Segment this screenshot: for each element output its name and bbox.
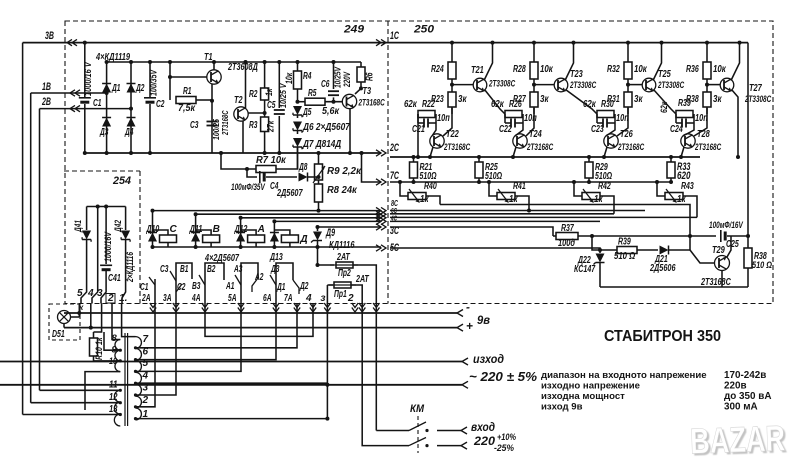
diode Д10 [148, 233, 157, 242]
label D13 [269, 252, 283, 263]
connector arrow down [173, 303, 179, 312]
label R23 value [458, 94, 467, 105]
label R32 [607, 64, 620, 75]
junction [477, 180, 481, 184]
junction [194, 212, 198, 216]
diode D2 [127, 84, 136, 93]
label R28 [513, 64, 526, 75]
label C2 value 100/35V [149, 69, 159, 96]
svg-text:62к: 62к [583, 99, 597, 110]
wire tap1 [136, 418, 328, 420]
wire T29 base [690, 250, 714, 263]
svg-text:10к: 10к [540, 64, 554, 75]
label 2B [41, 96, 51, 108]
junction [655, 180, 659, 184]
label C1 value 1000/16V [83, 61, 93, 96]
label C2 [156, 99, 165, 110]
wire bottom rail right [600, 286, 748, 288]
svg-text:+: + [466, 319, 473, 333]
connector arrow down [310, 303, 316, 312]
label Д12 [234, 224, 248, 235]
label С21 [412, 124, 425, 135]
svg-text:R10 1к: R10 1к [94, 337, 104, 360]
svg-text:62к: 62к [491, 99, 505, 110]
label R38 [754, 251, 767, 262]
svg-text:100мФ/35V: 100мФ/35V [231, 182, 266, 192]
svg-text:СТАБИТРОН 350: СТАБИТРОН 350 [604, 328, 721, 345]
label Т21 [471, 65, 484, 76]
wire R7 left leg [221, 153, 256, 169]
resistor R10 [90, 332, 98, 361]
label С22 [499, 124, 512, 135]
wire 2B [40, 108, 132, 110]
wire Т25 base [628, 84, 642, 86]
table row [541, 391, 771, 402]
wire terminal4 drop [90, 304, 92, 328]
wire R10 to tap10 [94, 360, 121, 362]
wire relay coil bottom [289, 243, 291, 248]
label terminal 7А [284, 293, 293, 304]
junction [412, 180, 416, 184]
connector 2C chevrons [376, 150, 386, 156]
label 1C [390, 30, 399, 42]
wire Т23 collector [565, 43, 574, 81]
svg-text:Д2: Д2 [135, 83, 144, 94]
junction [83, 41, 87, 45]
svg-text:А: А [257, 224, 265, 235]
label Д11 [189, 224, 203, 235]
resistor R39 [600, 247, 658, 254]
resistor R4 [294, 62, 302, 102]
junction [572, 180, 576, 184]
wire Т25 collector [653, 43, 662, 81]
svg-text:А1: А1 [225, 281, 234, 292]
label С22 value 10n [524, 113, 537, 124]
label terminal 3А [163, 293, 172, 304]
capacitor С21 [418, 114, 436, 128]
connector izhod 2 [462, 381, 468, 388]
svg-text:R8 24к: R8 24к [327, 185, 358, 196]
connector 9v minus [457, 300, 470, 317]
connector 9С chevrons [376, 218, 386, 224]
wire 9v line plus [64, 327, 457, 329]
label D9 [325, 227, 335, 239]
connector arrow down [373, 303, 379, 312]
svg-text:изходно напрежение: изходно напрежение [541, 381, 640, 392]
diode D1 [102, 84, 111, 93]
wire Т28 base [683, 123, 694, 136]
wire 254 mid column [92, 207, 98, 304]
label R41 value 1k [509, 194, 518, 205]
svg-text:R22: R22 [422, 99, 435, 110]
connector chevrons 3B [67, 39, 77, 45]
label R6 rotated [365, 72, 376, 81]
svg-text:220: 220 [473, 434, 496, 448]
label tap 13 [109, 404, 118, 415]
label Т27 name right [744, 83, 771, 104]
svg-text:2Т3168С: 2Т3168С [617, 142, 644, 152]
label R40 [424, 181, 437, 192]
svg-text:1000/16 V: 1000/16 V [83, 61, 93, 96]
capacitor С24 [676, 114, 694, 128]
junction [425, 444, 428, 447]
svg-text:4С: 4С [390, 215, 397, 223]
svg-text:R39: R39 [618, 237, 631, 248]
label C1 contact [140, 282, 149, 293]
connector chevrons 2B [70, 105, 80, 111]
resistor R33 [667, 157, 675, 182]
svg-text:3к: 3к [458, 94, 467, 105]
svg-text:5,6к: 5,6к [322, 106, 340, 117]
label T3 type [358, 98, 385, 108]
wire terminal1 drop [122, 304, 136, 337]
label R1 value [178, 103, 196, 114]
label Т26 [620, 129, 633, 140]
relay coil Д [281, 235, 298, 243]
wire Т24 collector [526, 108, 534, 136]
label Т24 [529, 129, 542, 140]
wire 2B left drop [39, 109, 41, 391]
wire tap11 [40, 389, 121, 391]
svg-text:R41: R41 [513, 181, 526, 192]
junction [105, 151, 109, 155]
label relay С [170, 224, 178, 235]
svg-text:Д41: Д41 [72, 220, 83, 233]
resistor R6 [355, 62, 365, 94]
junction [332, 60, 336, 64]
junction [119, 401, 122, 404]
contact D2 blade [293, 280, 299, 294]
junction [129, 107, 133, 111]
label 220 5pct [469, 369, 537, 384]
label T2 [234, 95, 243, 106]
label R28 value [540, 64, 554, 75]
svg-text:100/25: 100/25 [212, 119, 221, 140]
label tap 3 [143, 383, 149, 394]
label R29 [595, 162, 612, 182]
connector 6С chevrons [376, 211, 386, 217]
transistor Т26 [604, 134, 618, 148]
capacitor C4 [260, 171, 297, 183]
relay coil С [160, 235, 177, 243]
junction [626, 41, 630, 45]
label izhod [473, 352, 504, 366]
svg-text:2Т3608Д: 2Т3608Д [227, 62, 258, 73]
junction [134, 358, 137, 361]
wire relay coil bottom [167, 243, 169, 248]
svg-text:R24: R24 [431, 64, 444, 75]
junction [277, 151, 281, 155]
junction [104, 205, 108, 209]
potentiometer R40 [408, 189, 426, 203]
label tap 11 [109, 380, 118, 391]
wire relay branch С [152, 211, 154, 247]
capacitor C1 [79, 43, 91, 153]
svg-text:1.: 1. [119, 293, 128, 304]
label С23 [591, 124, 604, 135]
svg-text:диапазон на входното напрежени: диапазон на входното напрежение [541, 370, 707, 381]
label R40 value 1k [420, 194, 429, 205]
label 3B [45, 30, 54, 42]
wire pot left to rail [400, 182, 408, 196]
wire pot left to rail [657, 182, 665, 196]
title STABITRON 350 [604, 328, 721, 345]
junction [219, 151, 223, 155]
wire tap13 [23, 414, 121, 416]
label Т26 type [617, 142, 644, 152]
wire T2 collector [245, 62, 247, 108]
svg-text:R26: R26 [509, 99, 522, 110]
wire KM feed 2 [362, 304, 409, 446]
table row [541, 402, 758, 413]
transistor Т25 [642, 78, 656, 92]
resistor R21 [410, 157, 418, 182]
connector 7C chevrons [376, 179, 386, 185]
connector 4С chevrons [376, 215, 386, 221]
label R43 [681, 181, 694, 192]
resistor R26 [505, 111, 522, 118]
svg-text:С24: С24 [670, 124, 683, 135]
label D5 [302, 107, 311, 118]
label С21 value 10n [437, 113, 450, 124]
junction [626, 83, 630, 87]
label terminal 2А [141, 293, 150, 304]
wire bottom rail 249 [85, 152, 381, 154]
wire bus 6С section 249 [196, 213, 381, 215]
wire 3B left drop [22, 43, 24, 415]
label 9v [477, 313, 490, 327]
label R37 value [558, 238, 575, 249]
wire supply rail y62 [107, 61, 361, 63]
wire T2 emitter [242, 121, 244, 153]
svg-text:3к: 3к [540, 94, 549, 105]
wire bus line4 250 [390, 216, 697, 218]
label Pr2 rating 2AT [336, 252, 350, 263]
label C3 [160, 264, 169, 275]
junction [105, 91, 109, 95]
switch KM contact 1 [376, 422, 461, 431]
contact C2 blade [176, 284, 182, 292]
transistor Т24 [513, 134, 527, 148]
wire T29 collector [727, 236, 731, 257]
wire 7C rail 250 [390, 181, 671, 183]
svg-text:Д3: Д3 [270, 264, 279, 275]
label Т25 [658, 69, 671, 80]
dashed enclosure section 254 [64, 171, 140, 304]
transistor Т27 [720, 78, 734, 92]
wire relay coil bottom [210, 243, 212, 248]
svg-text:510 Ω: 510 Ω [614, 251, 635, 262]
svg-text:R30: R30 [601, 99, 614, 110]
resistor R23 [448, 92, 456, 114]
label D3 contact [270, 264, 279, 275]
svg-text:4А: 4А [191, 293, 200, 304]
svg-text:1С: 1С [390, 30, 399, 42]
svg-text:С3: С3 [190, 120, 199, 131]
junction [317, 209, 321, 213]
junction [244, 60, 248, 64]
wire terminal 3 long drop [326, 304, 328, 419]
junction [360, 151, 364, 155]
svg-text:2А: 2А [141, 293, 150, 304]
connector 1C chevrons [376, 39, 386, 45]
label R10 1k [94, 337, 104, 360]
svg-text:-25%: -25% [494, 442, 515, 453]
svg-text:Д1: Д1 [111, 83, 120, 94]
wire Т21 collector [484, 43, 493, 81]
label D42 [112, 219, 123, 232]
wire Т23 emitter coupling [566, 90, 598, 115]
svg-text:10к: 10к [284, 72, 294, 84]
wire bridge left column [106, 62, 108, 153]
junction [77, 311, 81, 315]
diode D41 [81, 207, 91, 304]
wire right rail [747, 43, 749, 236]
zener D22 [594, 250, 605, 287]
transformer winding right [136, 337, 142, 420]
wire pot right to bus [426, 196, 440, 205]
wire Т28 collector [694, 108, 707, 136]
diode D21 [660, 236, 691, 255]
svg-text:R2: R2 [249, 89, 258, 100]
junction [746, 234, 750, 238]
svg-text:Д2: Д2 [299, 281, 308, 292]
wire tap7 to 7A [136, 304, 298, 348]
label R27 [513, 94, 526, 105]
label 2xKD1116 [125, 252, 135, 283]
label R3 [249, 120, 258, 131]
junction [89, 326, 93, 330]
label R1 [183, 86, 192, 97]
svg-text:R42: R42 [598, 181, 611, 192]
label terminal 3 [97, 288, 103, 299]
connector 3C chevrons [376, 224, 386, 230]
svg-text:62к: 62к [659, 101, 669, 113]
junction [317, 175, 321, 179]
wire tap9 stub [104, 332, 120, 350]
label R5 [308, 88, 317, 99]
junction [425, 429, 428, 432]
wire relay coil top [274, 230, 290, 235]
label Т28 [697, 129, 710, 140]
svg-text:1В: 1В [42, 81, 51, 93]
label D22 [577, 255, 591, 266]
wire bus 9С section 249 [274, 220, 381, 222]
wire C4 branch [247, 169, 257, 177]
section label 250 [413, 24, 435, 36]
zener D6 [293, 122, 302, 135]
svg-text:BAZAR: BAZAR [689, 417, 785, 461]
junction [590, 234, 594, 238]
label R38 value [713, 94, 722, 105]
resistor R1 [176, 97, 212, 104]
svg-text:2: 2 [347, 293, 354, 304]
label R33 [677, 161, 691, 182]
resistor R29 [585, 157, 593, 182]
wire relay branch В [195, 214, 197, 247]
junction [487, 180, 491, 184]
label D2 [135, 83, 144, 94]
label +10pct [497, 431, 516, 442]
label R38 value [752, 259, 772, 270]
svg-text:до 350 вА: до 350 вА [724, 391, 771, 402]
svg-text:Т1: Т1 [204, 52, 213, 63]
resistor R8 [315, 184, 323, 211]
junction [272, 219, 276, 223]
wire 1B [31, 92, 107, 94]
transistor T29 [715, 256, 730, 271]
label 8C [391, 199, 399, 208]
capacitor C3 [207, 122, 218, 126]
svg-text:КС147: КС147 [574, 264, 596, 275]
transistor Т22 [430, 134, 444, 148]
svg-text:7С: 7С [390, 170, 399, 182]
svg-text:2Т3308С: 2Т3308С [488, 79, 515, 89]
svg-text:4: 4 [87, 288, 94, 299]
transistor Т28 [681, 134, 695, 148]
diode D42 [121, 207, 130, 304]
svg-text:100д: 100д [558, 238, 575, 249]
svg-text:~ 220 ± 5%: ~ 220 ± 5% [469, 369, 537, 384]
svg-text:R37: R37 [561, 223, 574, 234]
wire R37 line [553, 235, 556, 237]
junction [705, 41, 709, 45]
junction [210, 99, 214, 103]
label R6 value 220V rotated [342, 71, 352, 88]
wire bus line2 250 [390, 210, 645, 212]
label C2 [177, 282, 186, 293]
junction [134, 346, 137, 349]
svg-text:з: з [320, 293, 325, 304]
label terminal 4 [87, 288, 94, 299]
transistor T2 [234, 107, 248, 121]
label 4x2D5607 [204, 253, 239, 264]
wire stage4 top feed [706, 43, 708, 62]
label R36 [686, 64, 699, 75]
label Д10 [146, 224, 160, 235]
contact A3-A1 bracket [235, 263, 258, 304]
label T1 type 2T3608D [227, 62, 258, 73]
junction [316, 263, 320, 267]
junction [398, 180, 402, 184]
resistor R28 [530, 62, 538, 92]
wire left winding bottom stub [85, 372, 120, 410]
label R30 [583, 99, 614, 110]
wire R1 feed [169, 62, 171, 100]
capacitor C5 [274, 62, 285, 153]
resistor R24 [448, 62, 456, 92]
junction [325, 383, 329, 387]
label B1 [180, 264, 189, 275]
contact D3-D1 bracket [270, 263, 293, 304]
junction [527, 209, 531, 213]
label D9 type KD1116 [329, 240, 355, 251]
wire tap3 to 3A [136, 304, 177, 396]
svg-text:220V: 220V [342, 71, 352, 88]
wire izhod line 2 [0, 384, 462, 386]
junction [272, 245, 276, 249]
label C6 value [334, 66, 343, 88]
label D8 type 2D5607 [276, 188, 303, 199]
label R7 10k [256, 155, 287, 166]
resistor R3 [261, 117, 269, 153]
junction [134, 417, 137, 420]
junction [168, 60, 172, 64]
junction [412, 155, 416, 159]
label D2 contact [299, 281, 308, 292]
junction [428, 155, 432, 159]
junction [83, 151, 87, 155]
